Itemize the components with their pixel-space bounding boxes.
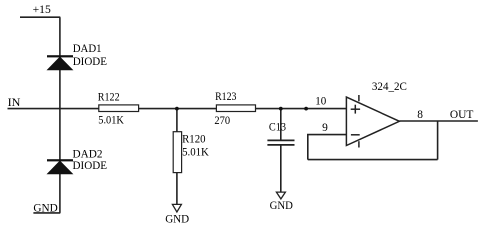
svg-text:10: 10 <box>315 96 326 108</box>
svg-text:324_2C: 324_2C <box>372 81 407 93</box>
svg-text:DIODE: DIODE <box>73 56 107 68</box>
svg-text:GND: GND <box>270 200 293 212</box>
svg-text:270: 270 <box>214 115 230 127</box>
svg-text:OUT: OUT <box>450 109 474 121</box>
svg-text:DAD2: DAD2 <box>73 148 103 160</box>
svg-text:GND: GND <box>33 202 57 214</box>
svg-text:5.01K: 5.01K <box>98 115 124 127</box>
svg-text:R123: R123 <box>215 91 237 103</box>
svg-text:5.01K: 5.01K <box>182 146 210 158</box>
svg-text:IN: IN <box>8 97 21 109</box>
svg-text:DAD1: DAD1 <box>73 43 102 55</box>
svg-text:DIODE: DIODE <box>73 160 108 172</box>
svg-text:R122: R122 <box>98 91 120 103</box>
svg-text:+15: +15 <box>33 4 51 16</box>
svg-text:9: 9 <box>322 122 328 134</box>
svg-text:R120: R120 <box>182 134 206 146</box>
svg-text:8: 8 <box>417 109 423 121</box>
svg-text:GND: GND <box>165 214 189 226</box>
svg-text:C13: C13 <box>269 122 286 134</box>
